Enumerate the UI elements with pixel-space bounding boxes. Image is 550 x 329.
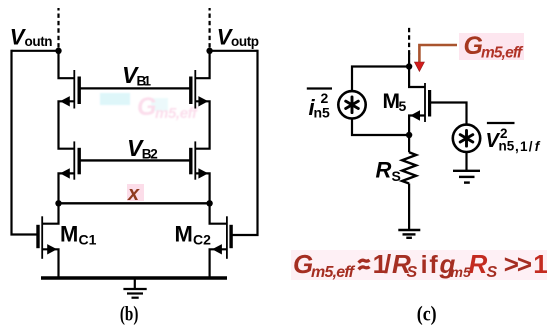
node V_outp junction dot: [206, 48, 212, 54]
svg-text:S: S: [407, 264, 418, 281]
svg-text:1: 1: [533, 249, 547, 279]
svg-text:B2: B2: [142, 147, 158, 162]
transistor T2R (cascode right, V_B2): [191, 141, 208, 179]
svg-text:m5,eff: m5,eff: [481, 45, 524, 62]
wire V_outp top horizontal: [210, 50, 258, 52]
svg-text:B1: B1: [137, 74, 152, 89]
label M_5: [383, 90, 407, 114]
resistor R_S zigzag: [402, 152, 416, 183]
transistor T1R (cascode right, V_B1): [191, 70, 208, 109]
red probe arrow G_m5,eff: [414, 45, 457, 72]
label M_C1: [60, 222, 97, 248]
svg-text:/: /: [384, 249, 391, 279]
wire M_C2 source to ground rail: [210, 249, 227, 278]
wire V_outn top horizontal: [12, 50, 59, 52]
wire node x to M_C1 drain: [42, 203, 58, 223]
label V_n5,1/f^2: [486, 123, 541, 154]
wire M5 source to node: [409, 116, 425, 136]
wire T1L drain (node to transistor): [59, 51, 75, 78]
label G_m5,eff (red, top): [459, 32, 524, 62]
transistor T1L (cascode left, V_B1): [60, 70, 79, 109]
svg-text:if: if: [421, 251, 440, 279]
ghost watermark artifact (pink Gm5,eff): [0, 0, 1, 1]
svg-text:(b): (b): [120, 302, 139, 326]
node x right junction dot: [206, 200, 212, 206]
wire T1R source down to T2R drain: [195, 101, 209, 148]
wire dashed stub above drain node: [408, 25, 410, 55]
wire node x horizontal: [59, 202, 210, 204]
wire drain node vertical: [409, 53, 425, 87]
node x left junction dot: [55, 200, 61, 206]
ground symbol below V source: [453, 171, 480, 183]
wire bottom rail from i_n5 source: [352, 118, 409, 135]
ground rail: [41, 276, 227, 279]
label V_B1: [122, 62, 151, 89]
wire dashed stub above V_outp node: [209, 8, 211, 48]
node x label (red): [127, 183, 144, 205]
wire T2R source down to node x: [195, 173, 209, 203]
svg-text:x: x: [127, 183, 140, 205]
svg-text:S: S: [487, 264, 498, 281]
wire R_S top: [408, 135, 410, 152]
transistor M_C2: [212, 216, 231, 258]
node V_outn junction dot: [55, 48, 61, 54]
node drain junction dot: [406, 63, 412, 69]
wire left outer vertical (V_outn to M_C1 gate): [12, 50, 38, 235]
transistor T2L (cascode left, V_B2): [60, 141, 79, 179]
svg-text:n5: n5: [314, 105, 331, 121]
label M_C2: [175, 222, 212, 248]
svg-text:>>: >>: [504, 249, 532, 279]
wire gate row1 (V_B1 line): [79, 87, 191, 89]
svg-text:R: R: [469, 249, 488, 279]
red formula G_m5,eff ~ 1/R_S if g_m5 R_S >> 1: [291, 249, 548, 281]
label R_S: [376, 158, 401, 185]
svg-text:M: M: [60, 222, 78, 247]
wire right outer vertical (V_outp to M_C2 gate): [230, 50, 258, 235]
svg-text:m5,eff: m5,eff: [155, 105, 199, 122]
svg-text:,1/: ,1/: [515, 139, 533, 154]
wire node x to M_C2 drain: [210, 203, 227, 223]
svg-text:C1: C1: [79, 232, 97, 248]
ground symbol (b): [123, 280, 146, 298]
ground symbol below R_S: [398, 230, 420, 238]
svg-text:(c): (c): [417, 302, 437, 326]
wire T2L source down to node x: [59, 173, 75, 203]
label V_B2: [127, 135, 158, 162]
wire dashed stub above V_outn node: [57, 8, 59, 48]
label V_outp: [217, 25, 259, 50]
svg-text:5: 5: [399, 98, 407, 114]
label i_n5^2: [307, 89, 332, 121]
svg-text:R: R: [376, 158, 392, 183]
svg-text:M: M: [383, 90, 401, 113]
wire T1R drain (node to transistor): [195, 51, 209, 78]
svg-text:n5: n5: [499, 139, 515, 154]
svg-text:outp: outp: [231, 34, 259, 49]
wire V source to ground: [465, 152, 467, 170]
wire R_S bottom to ground: [408, 184, 410, 230]
svg-text:S: S: [392, 168, 401, 184]
svg-text:C2: C2: [193, 232, 211, 248]
transistor M_C1: [38, 216, 57, 258]
transistor M5: [410, 83, 429, 122]
svg-text:outn: outn: [25, 34, 53, 49]
svg-text:m5,eff: m5,eff: [311, 264, 356, 281]
svg-text:G: G: [137, 93, 156, 121]
wire M5 gate to V source: [430, 103, 467, 125]
wire T1L source down to T2L drain: [59, 101, 75, 148]
wire top rail to i_n5 source: [352, 67, 409, 92]
label V_outn: [10, 25, 53, 50]
wire gate row2 (V_B2 line): [79, 159, 191, 161]
node source junction dot: [406, 132, 412, 138]
svg-text:M: M: [175, 222, 193, 247]
wire M_C1 source to ground rail: [42, 249, 58, 278]
voltage noise source V_n5 (circle with asterisk): [453, 125, 480, 152]
current noise source i_n5 (circle with asterisk): [338, 91, 365, 118]
